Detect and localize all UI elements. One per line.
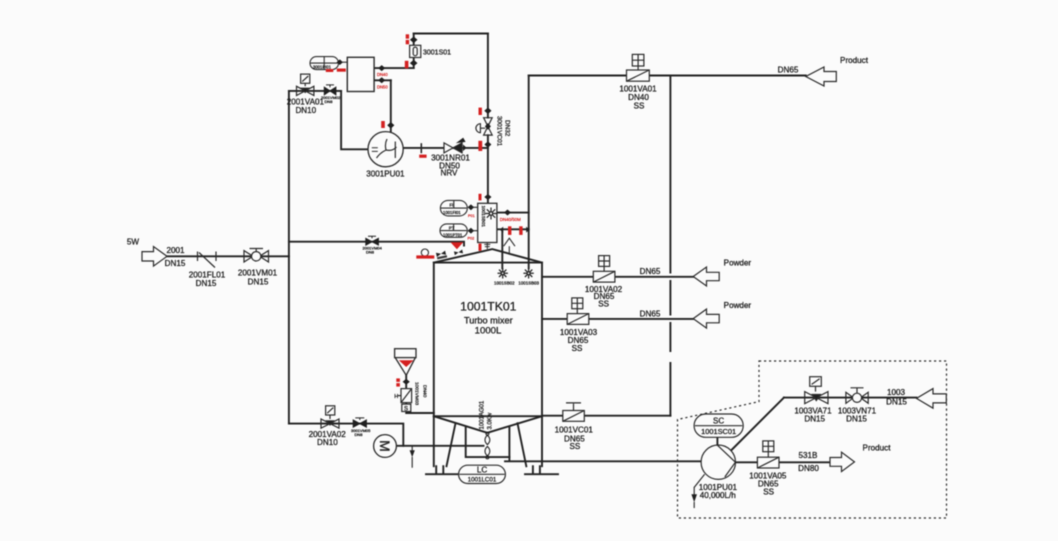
svg-text:Product: Product bbox=[863, 444, 892, 453]
svg-text:LC: LC bbox=[477, 466, 488, 475]
svg-text:1001VM03: 1001VM03 bbox=[414, 382, 420, 406]
svg-text:DN15: DN15 bbox=[248, 277, 269, 286]
svg-text:1001AG01: 1001AG01 bbox=[480, 400, 486, 429]
svg-text:PT: PT bbox=[449, 225, 455, 230]
svg-text:DN40/50M: DN40/50M bbox=[500, 217, 521, 222]
svg-text:3001PU01: 3001PU01 bbox=[366, 169, 405, 178]
svg-text:DN80: DN80 bbox=[798, 464, 819, 473]
svg-text:S: S bbox=[404, 406, 408, 412]
svg-text:1001SB03: 1001SB03 bbox=[518, 280, 539, 285]
svg-text:1001SC01: 1001SC01 bbox=[701, 427, 736, 436]
svg-text:1001VC01: 1001VC01 bbox=[555, 426, 594, 435]
svg-text:1001PT01: 1001PT01 bbox=[443, 233, 463, 238]
svg-text:Product: Product bbox=[840, 56, 869, 65]
svg-text:DN40: DN40 bbox=[422, 385, 428, 398]
svg-text:FI: FI bbox=[450, 203, 454, 208]
svg-text:Turbo mixer: Turbo mixer bbox=[464, 315, 513, 325]
svg-text:DN65: DN65 bbox=[640, 309, 661, 318]
svg-text:DN8: DN8 bbox=[366, 250, 375, 255]
svg-text:1001FI01: 1001FI01 bbox=[443, 210, 461, 215]
svg-text:DN15: DN15 bbox=[165, 259, 186, 268]
svg-text:NRV: NRV bbox=[441, 169, 459, 178]
svg-text:P01: P01 bbox=[468, 214, 475, 218]
svg-text:DN8: DN8 bbox=[355, 432, 364, 437]
svg-text:M: M bbox=[377, 440, 393, 452]
svg-text:Powder: Powder bbox=[724, 301, 752, 310]
svg-text:3001PI01: 3001PI01 bbox=[313, 64, 332, 69]
svg-text:SS: SS bbox=[598, 300, 609, 309]
svg-text:2001: 2001 bbox=[166, 246, 185, 255]
svg-text:SS: SS bbox=[569, 442, 580, 451]
svg-text:DN32: DN32 bbox=[504, 120, 511, 137]
svg-text:P02: P02 bbox=[468, 237, 475, 241]
svg-text:40,000L/h: 40,000L/h bbox=[700, 491, 736, 500]
svg-text:SS: SS bbox=[763, 487, 774, 496]
svg-text:DN15: DN15 bbox=[196, 279, 217, 288]
svg-text:DN50: DN50 bbox=[377, 84, 388, 89]
svg-text:DN65: DN65 bbox=[778, 66, 799, 75]
svg-text:SC: SC bbox=[713, 416, 724, 425]
svg-text:1001SB02: 1001SB02 bbox=[494, 280, 515, 285]
svg-text:3001S01: 3001S01 bbox=[423, 50, 451, 57]
svg-text:DN15: DN15 bbox=[846, 415, 867, 424]
svg-text:SS: SS bbox=[634, 101, 645, 110]
svg-text:2001VM01: 2001VM01 bbox=[238, 269, 278, 278]
svg-text:DN40: DN40 bbox=[377, 72, 388, 77]
svg-text:Powder: Powder bbox=[724, 258, 752, 267]
svg-text:5W: 5W bbox=[127, 237, 140, 246]
svg-text:1003: 1003 bbox=[887, 388, 906, 397]
svg-text:DN15: DN15 bbox=[804, 415, 825, 424]
svg-text:H: H bbox=[394, 394, 398, 400]
svg-text:3.0Kw: 3.0Kw bbox=[488, 412, 494, 429]
svg-text:DN10: DN10 bbox=[295, 106, 316, 115]
svg-text:1001LC01: 1001LC01 bbox=[468, 477, 497, 484]
svg-text:DN8: DN8 bbox=[325, 99, 334, 104]
svg-text:DN65: DN65 bbox=[640, 267, 661, 276]
svg-text:1001TK01: 1001TK01 bbox=[460, 300, 516, 314]
svg-text:531B: 531B bbox=[799, 451, 818, 460]
svg-text:DN15: DN15 bbox=[886, 397, 907, 406]
svg-text:3001VC01: 3001VC01 bbox=[496, 116, 503, 147]
svg-text:SS: SS bbox=[572, 344, 583, 353]
svg-text:1000L: 1000L bbox=[475, 326, 502, 337]
svg-text:1001SB01: 1001SB01 bbox=[481, 206, 486, 228]
svg-text:DN10: DN10 bbox=[317, 438, 338, 447]
